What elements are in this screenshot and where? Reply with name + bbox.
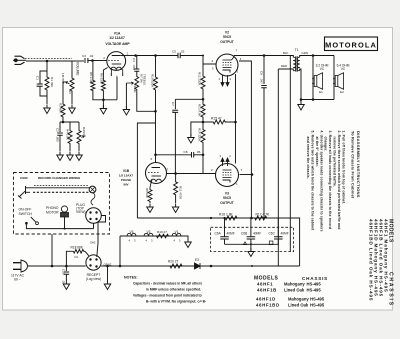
svg-text:.02: .02 (89, 54, 94, 58)
V2 plate wire (232, 56, 234, 61)
svg-text:HS-495: HS-495 (310, 302, 325, 307)
svg-text:R19 27: R19 27 (157, 230, 167, 234)
speaker E1 (314, 76, 317, 87)
svg-text:C4: C4 (132, 58, 136, 62)
B- bus rectangle (278, 218, 299, 266)
svg-text:E3: E3 (195, 258, 199, 262)
svg-text:.01: .01 (36, 83, 40, 88)
grounds under bass network (59, 147, 61, 151)
svg-text:46HF1BD Lined Oak HS-495: 46HF1BD Lined Oak HS-495 (369, 219, 374, 301)
svg-text:.05: .05 (196, 150, 201, 154)
B- main line (31, 265, 86, 267)
svg-text:B- with a VTVM. No signal inp: B- with a VTVM. No signal input. ◇= B- (146, 299, 206, 303)
svg-text:OUTPUT: OUTPUT (220, 40, 234, 44)
svg-text:1: 1 (237, 70, 239, 74)
svg-text:VIEW): VIEW) (76, 210, 86, 214)
svg-text:INV: INV (123, 183, 128, 187)
svg-text:.005: .005 (56, 136, 60, 142)
heater V3 (127, 233, 136, 236)
svg-text:R20 27: R20 27 (168, 260, 179, 264)
changer cable shield ring (89, 186, 96, 193)
resistor R1 39K (45, 74, 49, 93)
svg-text:MOTOROLA: MOTOROLA (325, 40, 377, 49)
svg-text:MOTOR: MOTOR (46, 211, 59, 215)
svg-text:Capacitors - decimal values in: Capacitors - decimal values in MF, all o… (133, 281, 202, 285)
speaker return wire (301, 99, 334, 101)
svg-text:4. Unsolder speaker leads conn: 4. Unsolder speaker leads connecting cha… (319, 131, 323, 232)
capacitor C6B 40MF (250, 218, 252, 237)
junction node (154, 54, 157, 57)
changer pigtail (91, 192, 95, 205)
wire pin1 down rail (235, 74, 237, 122)
svg-text:C1: C1 (36, 76, 40, 80)
wire top line (136, 55, 178, 57)
svg-text:VC: VC (320, 67, 325, 71)
filter cap dashed box (211, 227, 294, 251)
wire switch leg (51, 234, 53, 266)
junction node at C1/R1 (46, 60, 49, 63)
svg-text:2: 2 (211, 168, 213, 172)
svg-text:NOTES:: NOTES: (124, 275, 138, 279)
transistor tube V2 (216, 54, 238, 76)
svg-text:R17 4.7K: R17 4.7K (256, 213, 271, 217)
svg-text:HS-495: HS-495 (310, 297, 325, 302)
heater line (120, 235, 188, 237)
svg-text:V1: V1 (175, 230, 179, 234)
svg-text:46HF1BD: 46HF1BD (256, 302, 280, 307)
svg-text:R16 1.8K: R16 1.8K (219, 213, 234, 217)
transistor tube V3 (216, 164, 239, 187)
wire rail T1 primary return (277, 69, 279, 218)
ground under volume pot (71, 97, 73, 104)
ground treble wiper (125, 83, 127, 109)
junction node (234, 121, 237, 124)
svg-text:VOLUME: VOLUME (76, 62, 80, 75)
svg-text:FIL: FIL (75, 255, 79, 259)
junction node (312, 54, 315, 57)
rectifier E3 (195, 263, 201, 269)
capacitor C6A 40MF (224, 218, 226, 237)
wire to local ground (191, 122, 203, 136)
V1A pin stubs (111, 69, 122, 76)
svg-text:.003: .003 (132, 65, 136, 71)
ground under R1 (44, 105, 51, 114)
resistor R19 27 (153, 234, 172, 238)
svg-text:HS-495: HS-495 (307, 282, 322, 287)
svg-text:V1A: V1A (114, 32, 121, 36)
speaker E2 (335, 76, 338, 87)
svg-text:46HF1B: 46HF1B (257, 287, 277, 292)
V1B cathode hook to R8 (150, 180, 152, 188)
junction node (202, 121, 205, 124)
svg-text:Lined Oak: Lined Oak (288, 302, 309, 307)
svg-text:To Remove Chassis From Cabinet: To Remove Chassis From Cabinet (351, 131, 356, 199)
ground filter caps (250, 244, 252, 250)
junction node (91, 59, 94, 62)
svg-text:46HF1: 46HF1 (257, 282, 273, 287)
capacitor C3 .02 coupling (85, 58, 88, 63)
svg-text:HS-495: HS-495 (307, 287, 322, 292)
wire screen pin 6 to rail (239, 61, 251, 175)
svg-text:.047: .047 (260, 78, 264, 84)
svg-text:MODELS: MODELS (254, 275, 279, 281)
junction node (51, 265, 54, 268)
svg-text:1: 1 (127, 52, 129, 56)
svg-text:50C5: 50C5 (223, 35, 231, 39)
svg-text:SWITCH: SWITCH (19, 212, 33, 216)
svg-text:C6A: C6A (215, 232, 222, 236)
wire B- riser (136, 205, 138, 218)
resistor R5 3.3M grid leak (92, 61, 94, 80)
wire volume top to grid (72, 60, 84, 62)
svg-text:2: 2 (103, 56, 105, 60)
on-off switch (31, 217, 36, 222)
svg-text:RECORD CHANGER WIRING: RECORD CHANGER WIRING (38, 176, 81, 180)
heater V2 (144, 233, 153, 236)
transistor tube V1B (146, 163, 167, 184)
junction node (154, 110, 157, 113)
junction node (250, 217, 253, 220)
AC plug (13, 263, 21, 270)
junction node (102, 99, 105, 102)
svg-text:TONE: TONE (133, 84, 137, 93)
ground speaker return (300, 100, 302, 104)
capacitor C10 .05 (65, 266, 67, 271)
wire rail from T1 down (289, 56, 291, 252)
shielded cable to volume control (26, 60, 72, 62)
wire E1 branch (312, 56, 314, 100)
svg-text:R10 220K: R10 220K (151, 74, 155, 87)
resistor R2 68K (61, 101, 65, 120)
wire down to B- riser (137, 123, 155, 205)
svg-text:R4 3.9K: R4 3.9K (66, 129, 70, 140)
svg-text:V2: V2 (147, 230, 151, 234)
svg-text:SH2: SH2 (90, 241, 96, 245)
wire to V2 grid (203, 56, 216, 65)
svg-text:V3: V3 (225, 192, 229, 196)
svg-text:2. Remove three screws which h: 2. Remove three screws which hold perfor… (337, 131, 341, 230)
junction node (251, 173, 254, 176)
V1B grid feed wire (155, 155, 157, 163)
svg-text:7: 7 (241, 168, 243, 172)
svg-text:60: 60 (14, 278, 18, 282)
changer plug right wire (97, 216, 106, 258)
resistor R18 68K (66, 251, 72, 266)
svg-text:1. Pull off three knobs from t: 1. Pull off three knobs from top of cabi… (341, 131, 345, 205)
svg-text:50C5: 50C5 (223, 196, 231, 200)
svg-text:R12 220K: R12 220K (198, 72, 202, 85)
phono input plug (15, 56, 25, 64)
svg-text:E2: E2 (340, 90, 344, 94)
capacitor C9 .047 (261, 86, 267, 88)
resistor R12 220K (202, 64, 204, 71)
svg-text:C2: C2 (56, 128, 60, 132)
bass network wire (60, 122, 79, 127)
capacitor C7 .02 (174, 99, 176, 109)
ground heater end (181, 236, 188, 240)
svg-text:at the 6" speaker.: at the 6" speaker. (315, 137, 319, 167)
junction node (106, 265, 109, 268)
resistor R16 1.8K (218, 216, 244, 220)
resistor R17 4.7K (251, 216, 270, 220)
wire (175, 98, 203, 100)
svg-text:(Lug view): (Lug view) (86, 277, 101, 281)
MOTOROLA logo box (325, 37, 378, 51)
svg-text:R18 68K: R18 68K (71, 246, 84, 250)
op-amp tube V1A (107, 52, 126, 71)
V2 cathode arrows (222, 75, 224, 83)
ground under R11 (172, 204, 179, 213)
resistor R8 620 (148, 188, 152, 203)
svg-text:R15 47: R15 47 (211, 117, 222, 121)
capacitor C6C 40MF (277, 218, 279, 237)
svg-text:R3: R3 (68, 90, 72, 94)
T1 lead BLK (290, 56, 293, 58)
junction node (174, 172, 177, 175)
ground main line (107, 266, 109, 281)
resistor R4 3.9K (68, 127, 72, 147)
B+ line (137, 217, 278, 219)
resistor R6 820 cathode (103, 68, 107, 80)
svg-text:7: 7 (167, 168, 169, 172)
svg-text:ON-OFF: ON-OFF (19, 207, 32, 211)
svg-text:3. Remove all leads connecting: 3. Remove all leads connecting the chass… (328, 131, 332, 230)
ground under R8 (147, 204, 154, 213)
svg-text:V3: V3 (130, 230, 134, 234)
capacitor C1 .01 (37, 84, 43, 86)
svg-text:.02: .02 (180, 50, 185, 54)
svg-text:Mahogany: Mahogany (288, 297, 309, 302)
svg-text:VC: VC (341, 67, 346, 71)
wire (46, 61, 48, 71)
svg-text:C7: C7 (171, 102, 175, 106)
wire E2 branch (333, 56, 335, 100)
svg-text:CHASSIS: CHASSIS (302, 276, 328, 281)
junction node (65, 265, 68, 268)
svg-text:R13 6.8K: R13 6.8K (198, 104, 202, 117)
filter caps common wire (225, 243, 279, 245)
svg-text:remove the perforated baffle.: remove the perforated baffle. (333, 137, 337, 187)
phono motor (61, 206, 67, 212)
bass control pot (77, 127, 81, 147)
wire cathode return (93, 77, 117, 100)
wire rail C9 (263, 56, 265, 85)
junction node (154, 154, 157, 157)
svg-text:in MMF unless otherwise specif: in MMF unless otherwise specified. (146, 287, 201, 291)
record changer dashed box (14, 173, 110, 235)
svg-text:5. Remove two nuts which hold: 5. Remove two nuts which hold the chassi… (311, 131, 315, 232)
svg-text:C5: C5 (172, 50, 176, 54)
svg-text:R6 820: R6 820 (100, 73, 104, 83)
svg-text:C6B: C6B (241, 232, 247, 236)
svg-text:~: ~ (19, 278, 21, 282)
heater V1 (172, 233, 181, 236)
svg-text:Voltages - measured from point: Voltages - measured from point indicated… (133, 293, 202, 297)
svg-text:C3: C3 (82, 54, 86, 58)
capacitor C5 .02 (178, 53, 180, 59)
svg-text:T1: T1 (295, 48, 299, 52)
svg-text:C9: C9 (260, 71, 264, 75)
svg-text:R1 39K: R1 39K (50, 77, 54, 88)
svg-text:C6C: C6C (269, 232, 276, 236)
svg-text:R14 220K: R14 220K (198, 128, 202, 141)
changer shielded cable (30, 187, 90, 189)
svg-text:1/2 12AX7: 1/2 12AX7 (109, 36, 125, 40)
svg-text:PHONO: PHONO (46, 206, 59, 210)
wire R7 bottom to node (137, 92, 156, 111)
svg-text:C90C: C90C (20, 176, 29, 180)
svg-text:changer.: changer. (324, 137, 328, 152)
capacitor C8 .05 (156, 154, 192, 156)
svg-text:.02: .02 (171, 109, 175, 114)
wire grid line (92, 60, 107, 62)
ground under C10 (63, 281, 70, 290)
svg-text:R8 620: R8 620 (145, 188, 149, 198)
volume control R3 1M TAP (71, 61, 73, 72)
junction node (202, 154, 205, 157)
svg-text:C8: C8 (184, 150, 188, 154)
svg-text:TREBLE: TREBLE (143, 74, 147, 85)
wire R14 node to V3 grid (203, 155, 216, 174)
V3 heater pin arrows (222, 162, 224, 167)
svg-text:and remove the chassis.: and remove the chassis. (306, 137, 310, 179)
svg-text:VOLTAGE AMP: VOLTAGE AMP (105, 42, 130, 46)
svg-text:E1: E1 (319, 90, 323, 94)
resistor R15 47 (203, 120, 236, 124)
junction node (300, 98, 303, 101)
V3 plate line (240, 174, 253, 176)
svg-text:R2 68K: R2 68K (59, 103, 63, 114)
junction node (210, 265, 213, 268)
B- main line right (101, 265, 299, 267)
capacitor C4 .003 and treble pot R7 (136, 56, 138, 69)
wire plate to T1 (234, 55, 291, 57)
svg-text:40MF: 40MF (227, 232, 235, 236)
svg-text:PHASE: PHASE (121, 178, 131, 182)
junction node (210, 217, 212, 219)
svg-text:1/2 12AX7: 1/2 12AX7 (119, 174, 134, 178)
wire (202, 150, 204, 155)
wire rail continues (250, 175, 252, 219)
resistor R11 470K (174, 174, 178, 204)
T1 secondary return (300, 69, 301, 100)
svg-text:6: 6 (151, 157, 153, 161)
V1A plate wire (120, 55, 135, 57)
T1 lead GRN (300, 56, 334, 58)
svg-text:GRN: GRN (302, 51, 308, 55)
svg-text:R5 3.3M: R5 3.3M (89, 72, 93, 84)
ground (188, 134, 195, 143)
resistor R10 220K (155, 56, 157, 73)
svg-text:7: 7 (236, 49, 238, 53)
svg-text:1: 1 (236, 182, 238, 186)
svg-text:C10: C10 (62, 269, 66, 275)
svg-text:BASS: BASS (82, 127, 86, 135)
tap wire to R2 (62, 82, 64, 101)
resistor R13 6.8K (201, 99, 205, 122)
T1 lead RED (278, 69, 293, 71)
changer pickup cartridge (18, 186, 30, 199)
wire heater riser (119, 236, 121, 266)
svg-text:46HF1D: 46HF1D (256, 297, 276, 302)
changer wiring (26, 217, 93, 229)
wire down to V1B grid (155, 111, 157, 155)
junction node (62, 121, 65, 124)
junction node (202, 98, 205, 101)
svg-text:40MF: 40MF (281, 232, 289, 236)
svg-text:R11 470K: R11 470K (179, 186, 183, 199)
svg-text:OUTPUT: OUTPUT (220, 201, 234, 205)
V1B plate line (167, 173, 204, 175)
svg-text:V1B: V1B (123, 169, 130, 173)
svg-text:Lined Oak: Lined Oak (284, 287, 305, 292)
svg-text:2: 2 (212, 59, 214, 63)
svg-text:V2: V2 (225, 31, 229, 35)
plug circle (86, 208, 102, 224)
transformer T1 (293, 57, 296, 60)
svg-text:RED: RED (281, 64, 287, 68)
receptacle (86, 255, 101, 270)
wire (40, 71, 47, 104)
junction node (202, 55, 204, 57)
junction node (119, 265, 122, 268)
junction node (134, 54, 137, 57)
capacitor C2 .005 (59, 127, 61, 132)
svg-text:Mahogany: Mahogany (284, 282, 305, 287)
resistor R14 220K (201, 122, 205, 150)
treble wiper arrow (126, 82, 133, 84)
resistor R20 27 (166, 264, 186, 268)
svg-text:BLK: BLK (283, 51, 289, 55)
svg-text:40MF: 40MF (253, 232, 261, 236)
ground under R5 R6 (102, 100, 104, 108)
wire rail to V3 top (235, 122, 237, 164)
